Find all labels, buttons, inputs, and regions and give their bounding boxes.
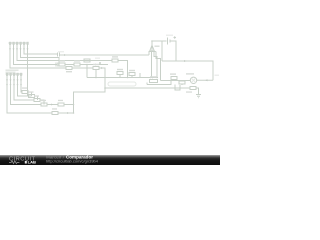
label smudges (component value text): [22, 46, 194, 110]
wire R12 tap: [119, 75, 121, 78]
resistor R5: [22, 91, 28, 94]
wire J1 pin3: [17, 44, 112, 61]
wire J1 pin6: [28, 44, 32, 96]
arrow lamp wire: [205, 79, 208, 81]
resistor R11: [112, 59, 118, 62]
wire top rail right: [162, 61, 213, 80]
wire net F: [161, 80, 191, 82]
connector J2 label marks: [6, 70, 19, 73]
resistor R14: [150, 80, 158, 83]
junction dot: [156, 77, 158, 79]
J2 pin arrows: [6, 80, 22, 82]
wire loop net: [74, 88, 191, 113]
logo LAB: [25, 161, 27, 164]
resistor R6: [29, 95, 35, 98]
J1 pin arrows: [9, 49, 29, 51]
wire R3 in: [10, 67, 66, 69]
wire R11 out: [118, 61, 128, 78]
wire battery right: [170, 41, 176, 61]
arrow net E: [152, 77, 154, 79]
wire J2 pin3: [14, 75, 34, 100]
resistor R7: [34, 99, 40, 102]
J2 junction dots: [6, 84, 22, 86]
ground: [196, 95, 201, 98]
lamp L1: [190, 77, 196, 83]
wire drop x177: [175, 85, 180, 91]
wire R2 right: [80, 64, 95, 66]
resistor R13: [129, 73, 135, 76]
battery V1: [168, 38, 171, 45]
wire R9 out: [64, 104, 74, 106]
wire net C end: [97, 62, 108, 65]
lamp L1 cross: [191, 78, 195, 82]
logo zigzag: [9, 161, 19, 164]
capacitor C2 marks: [56, 63, 58, 67]
connector J2 top bar: [6, 73, 23, 75]
wire U1 pin d: [156, 52, 161, 81]
resistor R16: [179, 81, 185, 84]
wire D1 right: [196, 88, 199, 95]
wire net A: [60, 54, 149, 56]
svg-text:LAB: LAB: [28, 160, 36, 165]
resistor R8: [41, 103, 47, 106]
resistor R3: [66, 67, 72, 70]
connector J2 pads: [6, 73, 22, 76]
wire J2 pin1: [7, 75, 52, 113]
arrow top rail: [184, 60, 187, 62]
battery V1 plus: [174, 36, 176, 38]
wire U1 pin b: [151, 55, 153, 78]
wire J1 pin5: [24, 44, 57, 54]
label smudge battery: [166, 35, 173, 37]
wire V+ rail: [152, 40, 167, 42]
wire R3-R4: [72, 67, 93, 69]
node dots cascade: [73, 104, 75, 114]
wire lamp right: [197, 79, 213, 81]
wire J1 pin2: [14, 44, 58, 65]
resistor R12: [117, 72, 123, 75]
arrow net D: [101, 67, 103, 69]
resistor R2: [74, 63, 80, 66]
footer bar: [0, 155, 220, 165]
capacitor C1 marks: [58, 53, 60, 57]
connector J1 top bar: [9, 42, 28, 44]
junction dots net E: [95, 77, 151, 79]
wire R4 tap: [95, 70, 97, 78]
resistor R4: [93, 67, 99, 70]
arrow on net A: [64, 54, 66, 56]
wire R4 right: [99, 68, 105, 88]
resistor R15: [171, 77, 177, 80]
wire R7 out: [40, 100, 44, 105]
resistor R17: [84, 59, 90, 62]
resistor R10: [52, 112, 58, 115]
wire R15 tap: [173, 80, 175, 81]
wire net E: [87, 77, 158, 79]
wire R5 out: [28, 92, 32, 96]
wire J1 pin4: [21, 44, 60, 63]
op-amp U1 stem: [151, 41, 153, 52]
wire drop x162: [161, 41, 163, 61]
wire R13 tap: [132, 73, 140, 78]
wire U1 pin c: [154, 55, 157, 78]
junction dot: [86, 64, 88, 66]
label smudge: [58, 51, 64, 52]
svg-text:http://circuitlab.com/c/gn39b4: http://circuitlab.com/c/gn39b4: [46, 160, 98, 164]
diode D1: [190, 87, 196, 90]
connector J1 pads: [9, 42, 29, 45]
wire J1 pin1: [10, 44, 66, 68]
wire J2 pin4: [18, 75, 28, 96]
wire R16 tap: [181, 81, 183, 86]
op-amp U1 base bar: [149, 51, 156, 53]
arrow on R10 out: [67, 112, 69, 114]
wire R6 out: [35, 96, 38, 100]
wire R10 out: [58, 112, 74, 114]
arrow net C: [95, 64, 97, 66]
resistor R1: [59, 63, 65, 66]
label round box: [108, 82, 136, 86]
op-amp U1 pins: [149, 52, 154, 56]
wire R8 out: [47, 104, 58, 106]
resistor R9: [58, 103, 64, 106]
wire under R14: [147, 81, 171, 85]
wire J2 pin5: [21, 75, 22, 92]
junction dot: [104, 87, 106, 89]
node dot output: [151, 40, 153, 42]
label smudge: [95, 58, 100, 59]
op-amp U1: [150, 45, 155, 51]
arrow on node: [51, 104, 53, 106]
wire J2 pin2: [11, 75, 42, 105]
wire drop x87: [86, 65, 88, 78]
wire R1-R2: [65, 64, 74, 66]
